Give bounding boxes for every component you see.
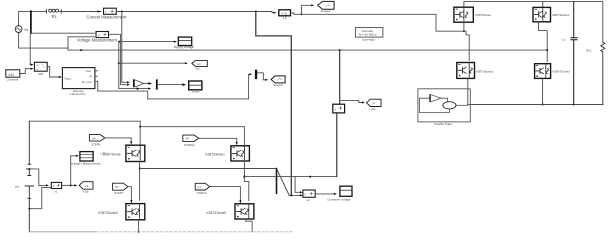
node branch to scope1	[301, 13, 303, 15]
wire leg2 midpoint to CM2 leg	[244, 176, 336, 178]
wire mux2 to scope3	[257, 73, 265, 80]
wire diagonal to v2 lower	[289, 194, 300, 196]
IGBT Q2 inverter top-right	[205, 146, 249, 161]
wire 1k output main to rectifier	[291, 13, 464, 31]
wire to Scope1	[301, 5, 311, 14]
svg-text:scope: scope	[192, 90, 200, 94]
svg-text:wt: wt	[198, 62, 201, 66]
svg-text:240: 240	[8, 73, 14, 77]
wire branch to voltage measurement minus	[68, 37, 95, 48]
svg-text:STEP7a: STEP7a	[197, 191, 208, 195]
IGBT U2 bottom-left of rectifier	[457, 63, 494, 79]
wire signal vertical c	[122, 12, 127, 83]
wire v2 out to converter scope	[315, 193, 334, 195]
svg-text:STEP6a: STEP6a	[184, 143, 195, 147]
mux Mux1	[156, 79, 158, 89]
display Voltage1 Measurement	[70, 152, 107, 166]
svg-text:V(pu): V(pu)	[64, 76, 71, 80]
node junction on main line	[255, 11, 257, 13]
svg-text:1-phase PLL: 1-phase PLL	[69, 92, 86, 96]
inverter DC- rail faint	[29, 231, 96, 233]
wire STEP6a to gate Q2	[199, 138, 237, 142]
PLL stub wt	[95, 75, 98, 77]
mux Mux2	[255, 70, 257, 79]
wire midpoint drop thick	[276, 169, 278, 194]
wire source top to RL	[19, 11, 47, 24]
from tag STEP6	[89, 135, 105, 147]
svg-text:Ts = 5e-005 s.: Ts = 5e-005 s.	[358, 33, 377, 37]
node source top junction	[30, 10, 32, 12]
svg-text:V1: V1	[85, 184, 89, 188]
wire signal vertical a	[119, 42, 148, 89]
wire leg1 emitter down to Q3	[139, 162, 141, 201]
scope Scope2 pentagon	[271, 76, 285, 87]
wire leg2 emitter to lower IGBT with return junction	[539, 22, 548, 62]
wire midpoint diagonal	[277, 169, 289, 195]
voltage measurement VM	[77, 32, 118, 43]
svg-text:Voltage1 Measurement: Voltage1 Measurement	[70, 162, 101, 166]
from tag STEP7	[113, 183, 128, 195]
svg-text:Voltage Measurement: Voltage Measurement	[77, 38, 118, 43]
wire to goto wt1	[119, 62, 185, 64]
wire leg1 emitter to lower IGBT	[464, 22, 469, 60]
svg-text:S6: S6	[92, 136, 96, 140]
IGBT Q4 inverter bottom-right	[207, 204, 254, 219]
resistor RL1	[586, 42, 605, 104]
svg-text:S7: S7	[197, 185, 201, 189]
wire v1 branch up to display	[71, 156, 76, 186]
wire Q3 emitter to rail	[138, 220, 140, 232]
wire STEP6 to gate Q1	[105, 138, 131, 141]
powergui block	[355, 28, 383, 42]
block 1k	[279, 10, 291, 20]
svg-text:v2: v2	[307, 198, 310, 202]
svg-text:S6: S6	[185, 137, 189, 141]
IGBT U3 top-right of rectifier	[533, 7, 570, 21]
svg-text:Converter voltage: Converter voltage	[327, 198, 351, 202]
PLL stub freq	[95, 70, 98, 72]
svg-text:Scope1: Scope1	[321, 9, 332, 13]
svg-text:IGBT/Diode: IGBT/Diode	[103, 152, 121, 156]
scope supply voltage	[174, 37, 195, 49]
svg-text:vdc: vdc	[15, 184, 20, 188]
svg-text:IGBT/Diode1: IGBT/Diode1	[205, 152, 225, 156]
constant block	[6, 70, 20, 82]
wire leg2 mid branch to v2 upper	[295, 177, 300, 193]
rectifier DC+ rail	[464, 2, 603, 43]
svg-text:STEP7: STEP7	[114, 191, 123, 195]
subsystem Astable Pulse	[418, 89, 470, 126]
svg-text:RL1: RL1	[586, 49, 592, 53]
wire CM2 measure out to goto Igrid	[340, 101, 362, 103]
IGBT U4 bottom-right of rectifier	[535, 64, 571, 79]
wire Q4 emitter jog to rail	[246, 219, 253, 232]
svg-text:c1: c1	[562, 38, 566, 42]
sum block Add	[34, 62, 47, 76]
wire RL to Current Measurement	[61, 11, 101, 13]
svg-text:IGBT/Diode4: IGBT/Diode4	[98, 211, 118, 215]
wire constant to add	[20, 69, 31, 74]
wire STEP7a to gate Q4	[210, 187, 241, 201]
from tag STEP6a	[183, 135, 199, 147]
svg-text:1 k: 1 k	[282, 16, 287, 20]
current measurement CM2	[333, 104, 345, 113]
node return line to grid current branch	[339, 49, 341, 51]
voltage measurement v1	[51, 182, 61, 193]
svg-text:IGBT/Diode: IGBT/Diode	[475, 13, 491, 17]
svg-text:S7: S7	[115, 185, 119, 189]
scope Scope1	[318, 1, 334, 13]
current measurement CM	[87, 8, 128, 19]
rectifier DC- rail	[468, 104, 603, 106]
goto tag Igrid	[367, 99, 382, 111]
svg-text:Scope2: Scope2	[273, 83, 283, 87]
dashed boundary line	[96, 231, 292, 233]
node main line joins leg1 midpoint	[463, 30, 465, 32]
wire thick source top to VM plus	[30, 11, 32, 33]
wire source bottom return	[19, 34, 548, 50]
wire v1 minus to battery bottom	[29, 187, 51, 208]
wire VM node down to add	[29, 33, 31, 64]
goto tag V1dc	[79, 182, 93, 194]
svg-text:Vs1: Vs1	[195, 67, 200, 71]
svg-text:IGBT/Diode2: IGBT/Diode2	[476, 69, 494, 73]
wire CM output to 1k block	[116, 12, 273, 13]
wire battery tap to v1	[29, 169, 46, 186]
capacitor C1	[562, 38, 577, 105]
series RLC branch RL	[47, 9, 62, 19]
svg-text:Current Measurement: Current Measurement	[87, 14, 128, 19]
node junction CM drop	[121, 11, 123, 13]
svg-text:Add: Add	[38, 72, 44, 76]
wire leg2 lower emitter to rail	[542, 78, 544, 104]
wire triangle to mux1	[144, 83, 148, 85]
inverter DC+ rail	[29, 121, 140, 145]
svg-text:IGBT/Diode3: IGBT/Diode3	[553, 69, 571, 73]
svg-text:wt: wt	[89, 74, 92, 78]
IGBT U1 top-left of rectifier	[454, 7, 491, 22]
wire branch to inverter vertical	[256, 12, 291, 196]
wire mux1 to scope2	[158, 84, 183, 86]
svg-text:Sin_Cos: Sin_Cos	[82, 80, 93, 84]
svg-text:V1dc: V1dc	[83, 190, 90, 194]
wire leg2 emitter down with mid junction	[244, 161, 248, 201]
svg-text:Vs: Vs	[24, 28, 28, 32]
svg-text:I grid: I grid	[370, 107, 376, 111]
svg-text:supply voltage: supply voltage	[174, 45, 195, 49]
svg-text:Freq: Freq	[86, 69, 92, 73]
wire STEP7 to gate Q3	[128, 187, 131, 200]
IGBT Q3 inverter bottom-left	[98, 204, 145, 220]
svg-text:0.01: 0.01	[281, 11, 287, 15]
svg-text:STEP6: STEP6	[91, 143, 100, 147]
svg-text:v1: v1	[54, 189, 57, 193]
IGBT Q1 inverter top-left	[103, 145, 145, 161]
wire leg1 midpoint out	[140, 168, 277, 170]
wire VM output down	[109, 34, 121, 41]
from tag STEP7a	[195, 183, 210, 195]
subsystem PLL	[62, 68, 95, 97]
AC source Vs	[15, 24, 28, 34]
svg-text:IGBT/Diode1: IGBT/Diode1	[552, 13, 570, 17]
svg-text:RL: RL	[52, 14, 58, 19]
wire leg1 lower emitter to rail	[467, 79, 469, 105]
svg-text:powergui: powergui	[363, 38, 376, 42]
scope scope2	[189, 81, 202, 94]
comparator bar and gain triangle	[133, 79, 144, 87]
wire add to PLL	[47, 67, 59, 77]
wire signal vertical b	[121, 42, 127, 85]
svg-text:IGBT/Diode5: IGBT/Diode5	[207, 211, 227, 215]
wire v1 out to tag V1dc	[62, 184, 75, 186]
goto tag wt1	[192, 60, 208, 70]
svg-text:Astable Pulse: Astable Pulse	[434, 122, 453, 126]
svg-text:Constant: Constant	[7, 78, 19, 82]
wire VM node to supply scope	[119, 41, 174, 43]
voltage measurement v2	[303, 190, 315, 202]
wire return line down to current measurement CM2	[339, 50, 341, 104]
wire PLL sincos to mux2	[95, 74, 249, 99]
svg-text:I1: I1	[373, 101, 376, 105]
DC source battery Vdc	[15, 121, 34, 232]
wire CM2 down to inverter mid rail	[336, 113, 338, 177]
scope Converter voltage	[327, 186, 352, 201]
